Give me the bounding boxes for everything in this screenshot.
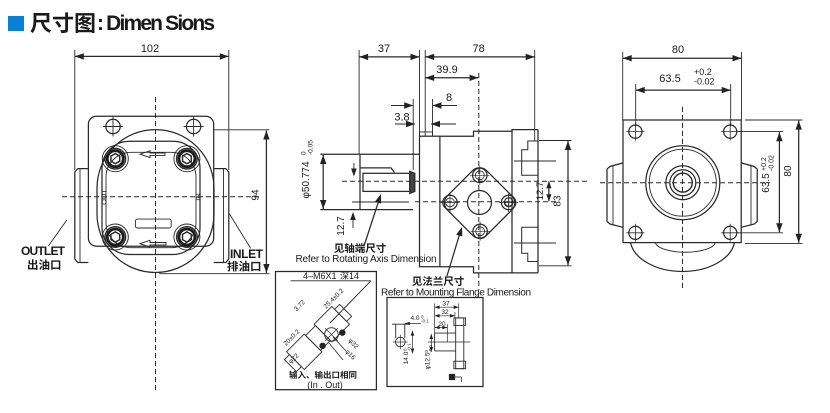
svg-text:63.5: 63.5: [659, 73, 680, 85]
flange plate: [420, 136, 440, 267]
flow arrow bottom: [140, 240, 166, 247]
small rect port: [135, 219, 171, 228]
socket bolts: [105, 148, 126, 169]
dim 8: [412, 99, 414, 170]
front face: [359, 154, 361, 209]
svg-text:14.0: 14.0: [403, 351, 410, 364]
shaft: [363, 173, 410, 191]
svg-text:94: 94: [251, 189, 262, 201]
dim 80 top: [622, 52, 624, 120]
axis leader: [364, 197, 380, 246]
drain port circle: [503, 196, 515, 208]
pump oval body: [97, 130, 214, 273]
mounting flange label: [412, 276, 464, 286]
svg-text:14: 14: [349, 271, 359, 281]
label 4-M6X1: [291, 280, 371, 282]
dim 78: [534, 50, 536, 141]
center boss circles: [646, 146, 720, 220]
mounting hole left: [103, 117, 123, 137]
svg-text:-0.1: -0.1: [428, 344, 433, 352]
phi leaders: [333, 337, 346, 351]
dim 32i: [454, 312, 456, 318]
svg-text:3.8: 3.8: [394, 112, 409, 124]
dim 63.5 right: [738, 131, 783, 133]
rear face: [537, 130, 539, 273]
dim 12.7 right: [548, 181, 550, 201]
inset 2 box: [387, 298, 483, 387]
middle view: [301, 43, 591, 290]
svg-text:IN: IN: [194, 193, 203, 201]
flange bar: [456, 318, 464, 369]
svg-text:φ50.774: φ50.774: [301, 161, 312, 199]
mounting hole right: [184, 117, 204, 137]
svg-text:OUT: OUT: [100, 189, 109, 205]
end view: [396, 337, 406, 347]
flange centerline horizontal: [415, 201, 556, 203]
inset 1 box: [276, 272, 377, 390]
dim 20i: [446, 324, 448, 342]
svg-text:20: 20: [438, 321, 446, 328]
svg-text:-0.02: -0.02: [694, 77, 715, 87]
14.0 dim: [412, 331, 414, 354]
upper rear boss: [522, 141, 538, 175]
svg-text:78: 78: [472, 43, 484, 55]
centerlines: [682, 107, 684, 290]
body top profile: [440, 130, 538, 137]
svg-text:12.7: 12.7: [535, 182, 546, 201]
centerline horizontal: [62, 196, 262, 198]
diamond mounting flange: [440, 164, 519, 243]
svg-text:φ12.5: φ12.5: [425, 352, 432, 369]
dim 102: [74, 50, 76, 170]
dim 94: [214, 129, 270, 131]
front cover: [102, 141, 200, 254]
shaft side profile: [435, 332, 456, 334]
body bottom profile: [440, 267, 538, 273]
dim 37i: [434, 304, 436, 334]
12.5 dim: [430, 334, 432, 352]
flange top step: [420, 132, 433, 136]
dim 3.8: [395, 123, 415, 125]
svg-text:37: 37: [378, 43, 390, 55]
body square: [623, 120, 741, 243]
dim 37: [358, 50, 360, 154]
svg-text:0: 0: [301, 151, 308, 155]
front view: [48, 43, 269, 392]
flange center circle: [468, 191, 492, 215]
inlet leader: [229, 214, 250, 248]
svg-text:Refer to Rotating Axis Dimensi: Refer to Rotating Axis Dimension: [296, 254, 437, 265]
svg-text:102: 102: [141, 43, 159, 55]
title blue square: [8, 16, 24, 31]
svg-text:: Dimen Sions: : Dimen Sions: [97, 12, 215, 35]
flow arrow top: [140, 151, 165, 158]
lower rear boss: [522, 227, 538, 261]
svg-text:83: 83: [553, 195, 564, 207]
svg-text:(In . Out): (In . Out): [307, 380, 343, 390]
svg-text:+0.2: +0.2: [761, 157, 768, 171]
svg-text:8: 8: [446, 92, 452, 104]
flange leader: [447, 230, 461, 277]
title text: [30, 12, 94, 33]
dim 83: [539, 140, 572, 142]
svg-text:80: 80: [783, 165, 794, 177]
back plate: [88, 116, 213, 246]
bolt bulges: [102, 146, 128, 172]
right tab: [741, 163, 757, 227]
main centerline: [342, 180, 590, 182]
svg-text:-0.05: -0.05: [308, 140, 315, 155]
svg-text:12.7: 12.7: [336, 216, 347, 236]
svg-text:-0.1: -0.1: [407, 343, 412, 351]
centerline vertical: [155, 97, 157, 392]
svg-text:+0.2: +0.2: [694, 67, 712, 77]
svg-text:INLET: INLET: [230, 247, 264, 261]
dim 63.5 top: [635, 84, 637, 126]
left port block: [75, 169, 89, 263]
flange holes: [470, 166, 489, 185]
outlet leader: [48, 220, 66, 246]
bottom mark: [450, 375, 455, 380]
svg-text:39.9: 39.9: [436, 64, 457, 76]
rear joint line: [511, 130, 513, 273]
bottom bulge: [631, 243, 735, 272]
corner bolt holes: [626, 123, 644, 141]
svg-text:32: 32: [441, 309, 449, 316]
12.7 left arrows: [353, 163, 355, 171]
rotated port squares: [282, 302, 357, 377]
flange centerline vertical: [478, 73, 480, 290]
svg-text:OUTLET: OUTLET: [21, 244, 66, 258]
boss bottom edge: [352, 201, 409, 203]
right view: [600, 44, 803, 290]
svg-text:63.5: 63.5: [761, 173, 772, 193]
svg-text:4–M6X1: 4–M6X1: [303, 271, 337, 281]
left tab: [607, 163, 623, 227]
dim 39.9: [425, 77, 478, 79]
rotating axis label: [334, 243, 386, 253]
svg-text:Refer to Mounting Flange Dimen: Refer to Mounting Flange Dimension: [381, 288, 531, 299]
keyway: [360, 168, 395, 173]
dim 80 right: [745, 119, 803, 121]
shaft end cap: [410, 171, 415, 193]
phi 50.774 dim: [320, 153, 419, 155]
svg-text:4.0: 4.0: [410, 315, 419, 322]
inner contour: [106, 152, 196, 247]
svg-text:-0.02: -0.02: [769, 155, 776, 171]
right port block: [214, 169, 229, 263]
svg-text:37: 37: [442, 301, 450, 308]
svg-text:-0.1: -0.1: [421, 319, 429, 324]
leader to holes: [330, 281, 371, 323]
svg-text:80: 80: [672, 44, 684, 56]
